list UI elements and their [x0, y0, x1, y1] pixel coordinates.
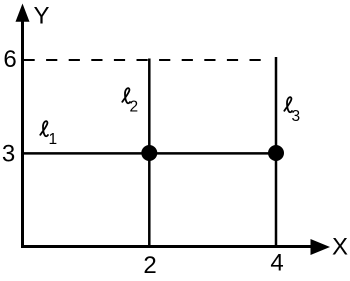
point (2,3): [141, 145, 157, 161]
svg-text:4: 4: [270, 250, 283, 277]
dashed line y=6: [24, 59, 267, 61]
label l1: [40, 121, 57, 148]
line l2 (x=2): [148, 59, 151, 247]
svg-text:Y: Y: [33, 3, 49, 30]
line l1 (y=3): [23, 152, 277, 155]
svg-text:3: 3: [2, 141, 15, 168]
svg-text:2: 2: [130, 99, 139, 116]
x-axis: [21, 245, 312, 248]
x-axis arrowhead: [311, 239, 331, 255]
line l3 (x=4): [275, 57, 278, 247]
svg-text:2: 2: [143, 252, 156, 276]
svg-text:1: 1: [49, 131, 58, 148]
svg-text:6: 6: [3, 46, 16, 73]
point (4,3): [268, 145, 284, 161]
label l2: [122, 88, 138, 115]
y-axis: [21, 14, 24, 248]
y-axis arrowhead: [16, 4, 30, 22]
svg-text:X: X: [332, 234, 348, 261]
svg-text:3: 3: [292, 108, 301, 125]
label l3: [284, 97, 300, 125]
